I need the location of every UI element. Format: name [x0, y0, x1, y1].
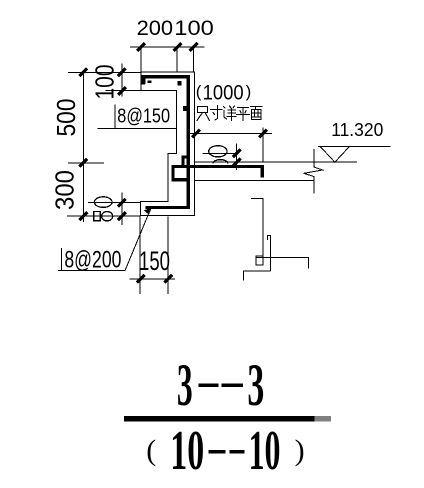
- svg-text:500: 500: [53, 99, 81, 137]
- svg-text:(: (: [196, 82, 202, 101]
- svg-text:): ): [295, 434, 305, 467]
- svg-text:8@150: 8@150: [117, 105, 170, 127]
- svg-text:200: 200: [137, 16, 174, 40]
- svg-text:3: 3: [177, 352, 193, 418]
- svg-text:100: 100: [174, 16, 214, 40]
- svg-text:150: 150: [139, 246, 170, 276]
- svg-text:10: 10: [170, 420, 204, 482]
- svg-text:11.320: 11.320: [331, 119, 383, 140]
- svg-text:): ): [246, 82, 252, 101]
- svg-text:300: 300: [52, 170, 80, 210]
- svg-text:10: 10: [249, 420, 281, 482]
- svg-text:1000: 1000: [203, 81, 244, 105]
- svg-text:100: 100: [92, 65, 120, 100]
- svg-text:8@200: 8@200: [64, 247, 121, 274]
- svg-text:3: 3: [247, 352, 264, 418]
- svg-text:(: (: [146, 434, 156, 467]
